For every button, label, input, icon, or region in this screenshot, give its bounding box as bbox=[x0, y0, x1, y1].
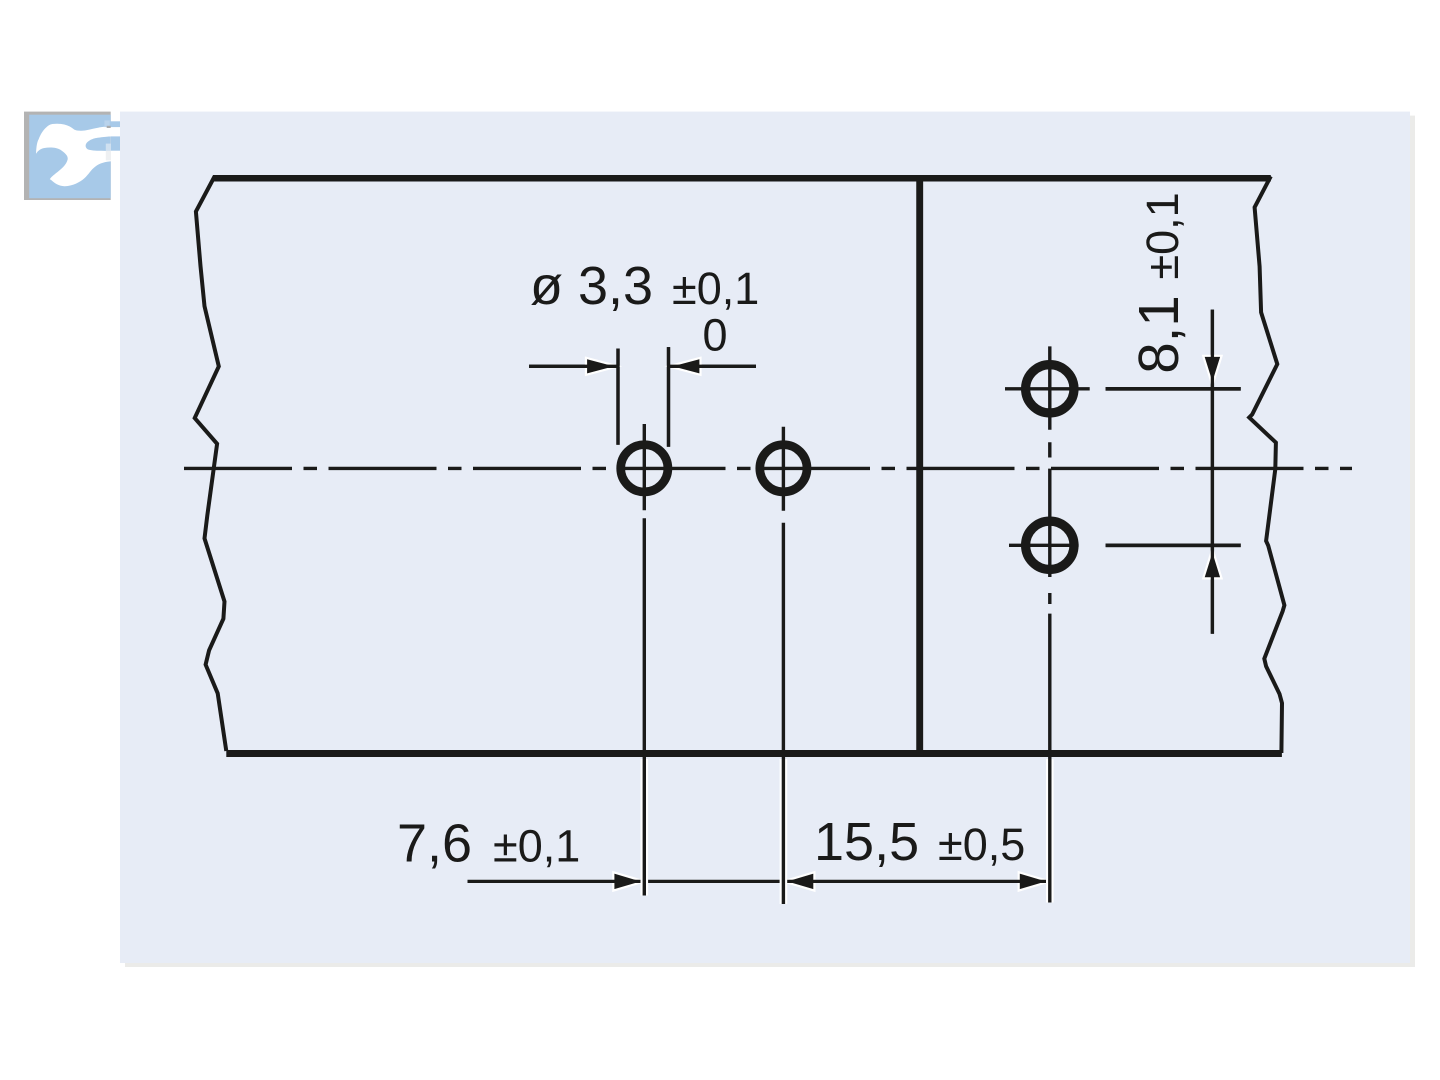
extension line lower right hole bbox=[1106, 543, 1241, 547]
diameter dimension line right bbox=[669, 365, 757, 368]
svg-text:±0,5: ±0,5 bbox=[938, 819, 1025, 870]
right break line bbox=[1249, 176, 1284, 753]
dimension and extension lines redrawn over arrow casings bbox=[529, 310, 1241, 634]
panel bbox=[120, 112, 1410, 963]
svg-text:±0,1: ±0,1 bbox=[493, 821, 580, 872]
svg-text:ø 3,3: ø 3,3 bbox=[530, 256, 653, 316]
vertical axis right holes lower bbox=[1048, 614, 1051, 903]
vertical axis right holes lower casing bbox=[1046, 759, 1054, 903]
diameter extension line left bbox=[616, 349, 619, 445]
arrowhead diameter left bbox=[586, 358, 618, 375]
divider line between plates bbox=[916, 175, 923, 757]
logo pixel tongue extension bbox=[111, 136, 120, 150]
arrowhead 7,6 bbox=[613, 872, 644, 890]
vertical dimension line 8,1 bbox=[1211, 310, 1214, 634]
logo pixel below light bbox=[106, 151, 111, 161]
bottom edge of plate bbox=[226, 750, 1282, 757]
horizontal center line (dash-dot) bbox=[184, 467, 1352, 470]
logo wrench icon bbox=[36, 124, 120, 186]
horizontal arm lower right hole bbox=[1009, 544, 1079, 547]
vertical axis hole 2 lower bbox=[782, 523, 785, 904]
top edge of plate bbox=[213, 175, 1271, 182]
vertical axis hole 1 lower bbox=[643, 518, 646, 895]
hole 2 circle bbox=[760, 445, 807, 492]
arrowhead 8,1 up bbox=[1203, 549, 1221, 579]
vertical axis hole 1 lower casing bbox=[640, 759, 648, 896]
extension line upper right hole bbox=[1106, 387, 1241, 391]
vertical axis hole 2 (upper part) bbox=[782, 427, 785, 511]
vertical axis hole 1 (upper part) bbox=[643, 424, 646, 510]
svg-text:±0,1: ±0,1 bbox=[672, 263, 759, 314]
hole 1 circle bbox=[621, 445, 668, 492]
logo gray frame bbox=[24, 112, 111, 200]
hole 4 circle (lower right) bbox=[1026, 521, 1074, 569]
arrowhead 15,5 right bbox=[1019, 872, 1050, 890]
left break line bbox=[195, 176, 227, 751]
arrowhead diameter right bbox=[669, 358, 701, 375]
diameter extension line right bbox=[667, 347, 670, 447]
vertical axis hole 2 lower casing bbox=[780, 759, 788, 904]
svg-text:7,6: 7,6 bbox=[397, 814, 472, 874]
svg-text:15,5: 15,5 bbox=[814, 812, 919, 872]
hole 3 circle (upper right) bbox=[1026, 365, 1074, 413]
logo pixel tongue light bbox=[106, 144, 111, 151]
bottom dimension line 7,6 / 15,5 bbox=[468, 880, 1050, 883]
logo pixel gray bbox=[107, 126, 111, 128]
arrowhead 8,1 down bbox=[1203, 356, 1221, 386]
logo pixel tab 1b bbox=[104, 120, 109, 127]
svg-text:0: 0 bbox=[703, 310, 728, 361]
logo pixel tab 1 bbox=[110, 121, 120, 127]
logo blue square bbox=[29, 115, 111, 199]
svg-text:8,1 ±0,1: 8,1 ±0,1 bbox=[1127, 192, 1190, 374]
panel shadow bbox=[125, 116, 1415, 967]
vertical axis right holes (upper part) bbox=[1048, 346, 1051, 604]
arrowhead 15,5 left bbox=[783, 872, 814, 890]
horizontal arm upper right hole bbox=[1005, 387, 1090, 390]
diameter dimension line left bbox=[529, 365, 618, 368]
